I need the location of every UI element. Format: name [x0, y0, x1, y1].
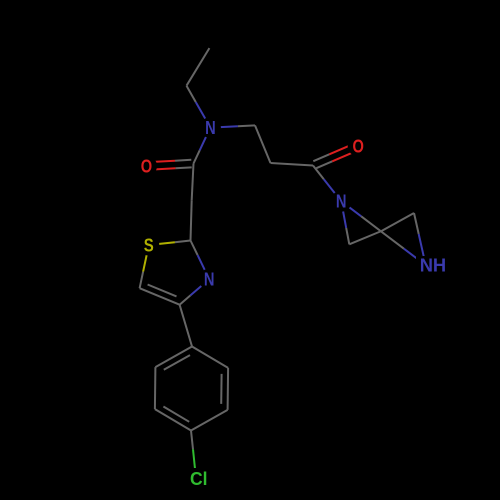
- label mask Ol: [136, 156, 157, 177]
- wire C(=O)-Calpha: [192, 164, 194, 201]
- thiazole bond S-C5: [143, 245, 149, 272]
- azetidine bond C7-spiroC: [382, 213, 415, 231]
- label mask Or: [348, 136, 369, 157]
- phenyl bond C4=C3: [155, 409, 191, 430]
- svg-text:O: O: [353, 136, 364, 157]
- azetidine bond N6-C7: [419, 234, 426, 265]
- thiazole bond C2-S: [175, 241, 191, 243]
- phenyl bond C3-C2: [154, 367, 157, 409]
- phenyl bond C6=C5: [227, 368, 230, 410]
- thiazole bond N3-C4: [190, 279, 209, 295]
- phenyl bond C1-C6: [192, 347, 228, 368]
- wire ethyl CH2-N1: [187, 86, 196, 102]
- azetidine bond C1-spiroC: [349, 231, 381, 244]
- wire Calpha-thiazole C2: [191, 200, 192, 240]
- svg-text:N: N: [205, 117, 216, 138]
- double bond C=O right: [316, 161, 332, 168]
- label mask N1: [200, 117, 221, 138]
- amide bond C-N2: [313, 166, 324, 180]
- svg-text:Cl: Cl: [190, 468, 208, 489]
- label mask S: [138, 235, 159, 256]
- wire N1-CH2a: [210, 126, 238, 127]
- thiazole double bond C4=C5: [140, 288, 180, 305]
- label mask N6: [416, 256, 452, 275]
- svg-text:NH: NH: [420, 255, 447, 276]
- svg-text:S: S: [144, 235, 154, 256]
- bond C4-Cl: [191, 431, 193, 450]
- spiro axis N2-C4-N6 (collapsed azetidine bonds): [341, 201, 361, 216]
- azetidine bond N2-C1: [341, 201, 346, 228]
- double bond C=O left: [175, 159, 191, 162]
- svg-text:N: N: [336, 191, 347, 212]
- phenyl bond C5-C4: [191, 410, 228, 431]
- wire ethyl CH3-CH2: [187, 48, 210, 86]
- thiazole bond C2-N3: [191, 241, 198, 256]
- label mask N2: [331, 191, 352, 212]
- svg-text:O: O: [141, 156, 152, 177]
- amide bond N1-C(=O)left: [200, 128, 211, 151]
- label mask N3: [199, 269, 220, 290]
- svg-text:N: N: [204, 269, 215, 290]
- wire CH2b-C(=O)right: [271, 163, 314, 166]
- phenyl bond C2=C1: [155, 347, 192, 368]
- wire CH2a-CH2b: [255, 125, 271, 163]
- label mask Cl: [187, 468, 214, 488]
- bond thiazole C4 - phenyl C1: [180, 305, 192, 347]
